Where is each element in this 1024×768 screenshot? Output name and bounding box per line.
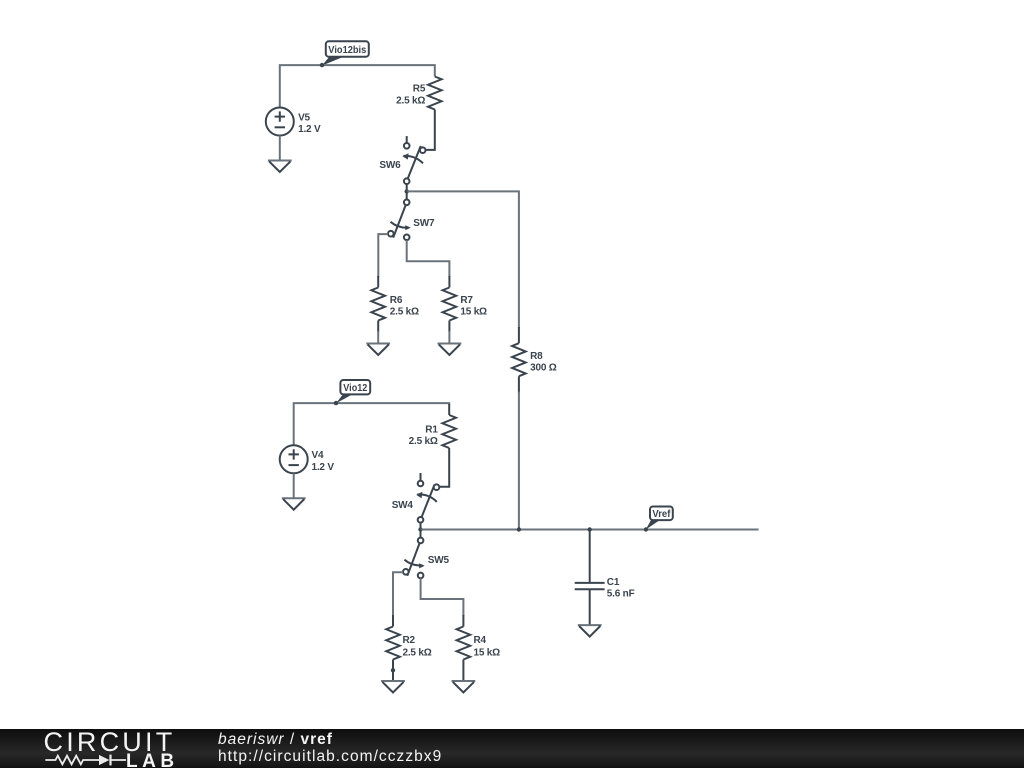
wire [378,234,388,277]
wire [280,65,435,108]
voltage source V4 [280,445,335,498]
ground [578,624,602,626]
svg-text:R7: R7 [460,295,473,306]
svg-text:2.5 kΩ: 2.5 kΩ [390,307,419,318]
ground [452,680,476,682]
net flag Vio12 [336,380,370,403]
svg-text:Vio12: Vio12 [343,382,367,394]
node junction [644,527,648,531]
capacitor C1 [575,530,635,626]
resistor R4 [457,627,501,682]
ground [282,497,306,499]
svg-text:1.2 V: 1.2 V [312,462,335,473]
svg-text:R1: R1 [425,424,438,435]
svg-text:1.2 V: 1.2 V [298,124,321,135]
switch SW6 [379,136,425,191]
svg-text:SW5: SW5 [428,555,450,566]
voltage source V5 [266,108,321,161]
svg-text:R8: R8 [530,351,543,362]
node junction [391,668,395,672]
wire [393,572,403,616]
resistor R8 [512,343,557,376]
switch SW4 [392,473,440,530]
node junction [517,527,521,531]
net flag Vio12bis [322,41,369,65]
node junction [588,527,592,531]
svg-text:300 Ω: 300 Ω [530,363,557,374]
net flag Vref [646,507,673,530]
svg-text:2.5 kΩ: 2.5 kΩ [409,436,438,447]
node junction [334,401,338,405]
resistor R2 [386,627,432,682]
svg-text:R6: R6 [390,295,403,306]
svg-text:SW4: SW4 [392,500,414,511]
ground [366,343,390,345]
svg-text:V5: V5 [298,112,310,123]
resistor R7 [443,288,487,344]
svg-text:15 kΩ: 15 kΩ [460,307,487,318]
svg-text:2.5 kΩ: 2.5 kΩ [396,95,425,106]
svg-text:15 kΩ: 15 kΩ [474,647,501,658]
ground [381,680,405,682]
wire [421,578,464,616]
resistor R5 [396,77,441,150]
resistor R1 [409,415,456,487]
wire [518,392,520,530]
svg-text:R2: R2 [403,635,416,646]
ground [438,343,462,345]
node junction [320,63,324,67]
svg-text:R4: R4 [474,635,487,646]
svg-text:5.6 nF: 5.6 nF [607,589,635,600]
svg-text:C1: C1 [607,577,620,588]
svg-text:SW6: SW6 [379,160,401,171]
svg-text:2.5 kΩ: 2.5 kΩ [403,647,432,658]
svg-text:Vio12bis: Vio12bis [328,44,366,56]
svg-text:R5: R5 [413,84,426,95]
wire [421,529,759,531]
ground [268,160,292,162]
wire [407,240,450,277]
resistor R6 [371,288,419,344]
svg-text:Vref: Vref [652,508,670,520]
node junction [405,189,409,193]
svg-text:V4: V4 [312,450,324,461]
wire [294,403,450,445]
svg-text:LAB: LAB [126,751,179,768]
node junction [418,527,422,531]
svg-text:SW7: SW7 [413,218,435,229]
wire [407,191,519,328]
switch SW7 [388,191,435,240]
switch SW5 [403,530,450,579]
